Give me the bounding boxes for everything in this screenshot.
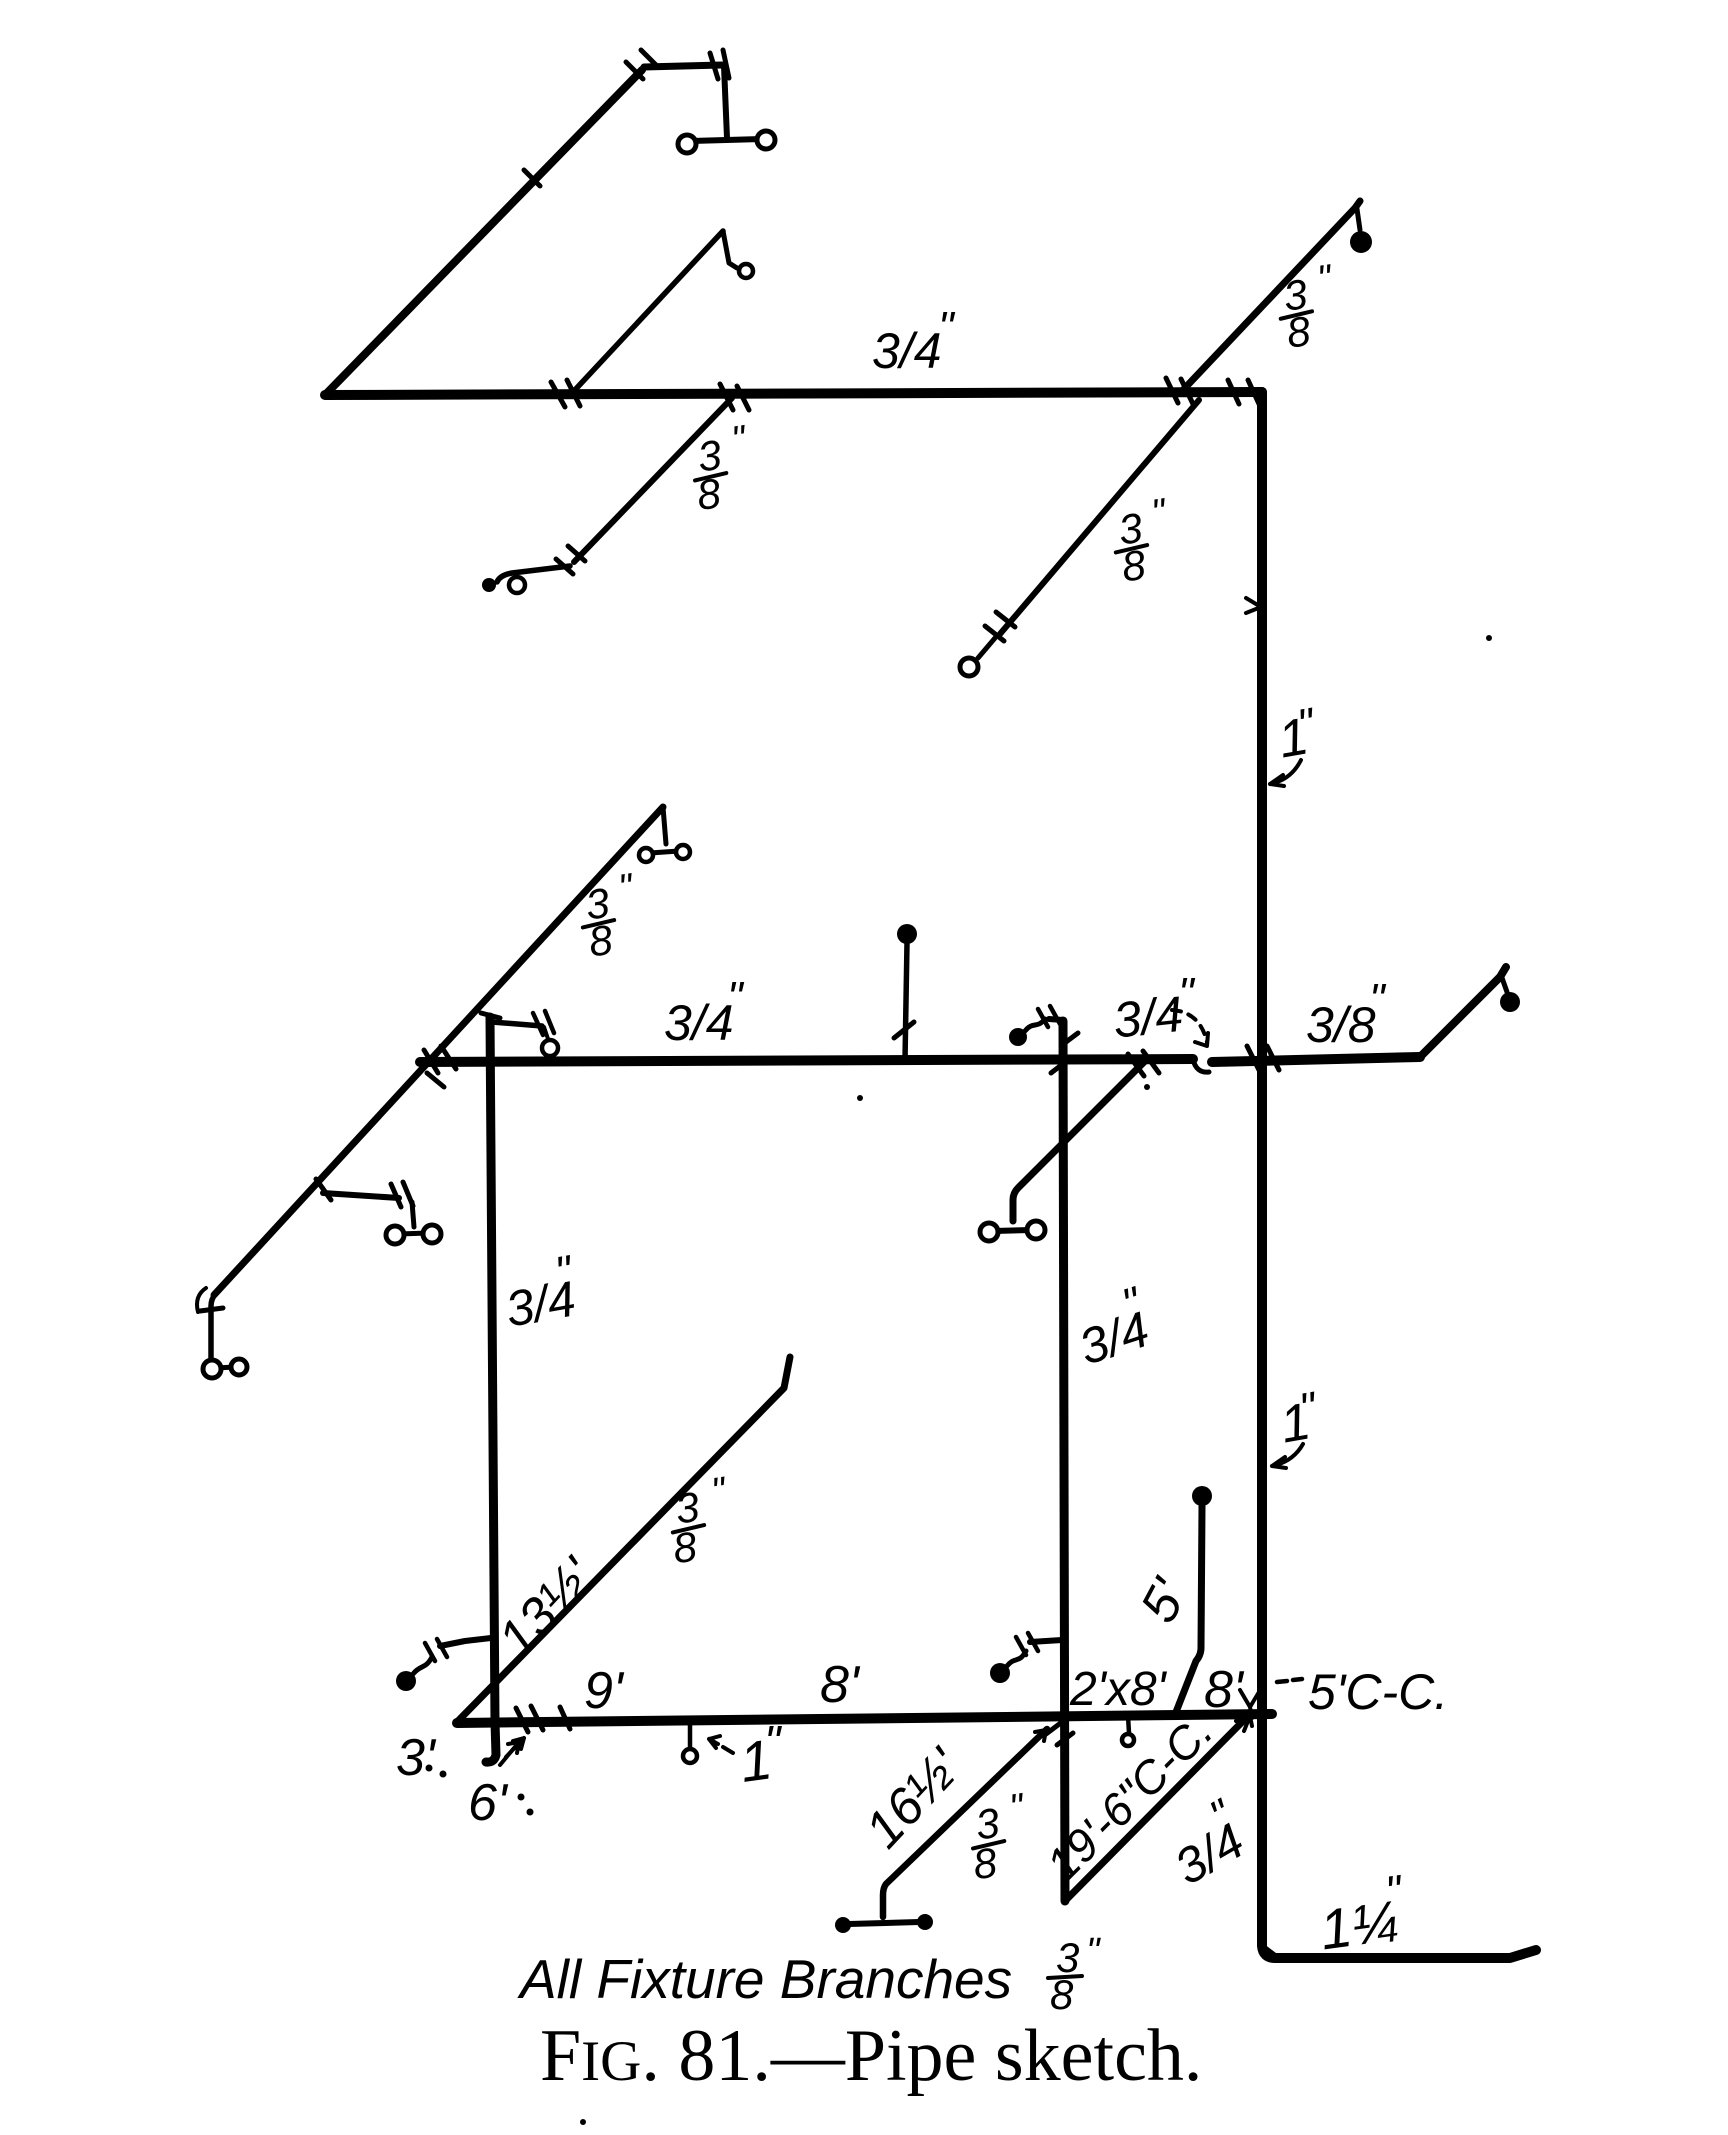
pipe: long mid-left 3/8-inch diagonal: [214, 807, 663, 1295]
svg-text:": ": [729, 418, 750, 462]
pipe: top-left branch drop: [724, 66, 727, 138]
fitting ticks at riser crossing of middle header: [1247, 1046, 1279, 1070]
svg-text:3/8: 3/8: [1306, 997, 1376, 1053]
pipe: middle 3/4-inch header (left of break): [420, 1059, 1193, 1062]
label 3/8-inch on top-right branch: [1277, 257, 1342, 356]
pipe: run left from its elbow: [497, 566, 570, 582]
svg-text:": ": [727, 973, 745, 1022]
svg-text:": ": [938, 303, 956, 352]
label 5 ft rotated: [1130, 1569, 1200, 1632]
label 9 ft: [584, 1662, 625, 1720]
label 3/4-inch on middle header: [664, 973, 745, 1051]
note: all fixture branches 3/8-inch: [517, 1931, 1101, 2018]
pipe: top 3/4-inch header: [325, 392, 1262, 395]
fixture: solid hub with squiggle at right vertical, bottom header level: [990, 1663, 1010, 1683]
caption: figure title: [540, 2015, 1202, 2097]
fixture: solid hub with squiggle at left vertical, bottom header level: [396, 1671, 416, 1691]
pipe: squiggle connection to right vertical top: [1025, 1019, 1045, 1031]
pipe: short end toward hub: [978, 638, 995, 658]
fixture: twin hubs under bar: [399, 1233, 428, 1234]
fixture: twin hubs at top of mid-left diagonal: [650, 851, 679, 853]
svg-text:All Fixture Branches: All Fixture Branches: [517, 1948, 1012, 2010]
stray ink specks: [1486, 635, 1492, 641]
pipe: 19ft-6in diagonal from right vertical bottom: [1065, 1716, 1248, 1901]
label 3 ft with leader dots: [396, 1729, 437, 1787]
pipe: branch bar off mid-left diagonal: [323, 1193, 399, 1198]
pipe: second top branch hook: [723, 231, 737, 268]
svg-text:": ": [1149, 491, 1170, 535]
pipe: stub down from bar: [412, 1202, 414, 1227]
fixture hub (solid) at right vertical top: [1009, 1028, 1027, 1046]
pipe: 3/8-inch branch below top header (left): [574, 398, 732, 562]
fixture hub (solid) at header NE end: [1500, 992, 1520, 1012]
label 13-1/2 ft rotated: [487, 1546, 607, 1668]
fitting tee at vertical top: [481, 1013, 500, 1018]
fitting ticks on that branch: [985, 612, 1015, 641]
pipe: second top branch diagonal: [573, 231, 723, 392]
label 3/4-inch on 19ft-6in diagonal: [1153, 1789, 1257, 1895]
label 3/8-inch right of riser on middle header: [1306, 975, 1387, 1053]
label 2ft x 8ft: [1069, 1663, 1168, 1716]
label 3/4-inch on top header: [872, 303, 956, 379]
svg-text:3/4: 3/4: [664, 995, 734, 1051]
label 1-1/4 inch on bottom run: [1313, 1866, 1412, 1961]
fixture hub below short run: [542, 1040, 558, 1056]
svg-text:3/4: 3/4: [1072, 1301, 1155, 1376]
dimension Y arrow at riser bottom junction: [1240, 1690, 1259, 1718]
pipe: 5 ft stub with solid hub: [1192, 1486, 1212, 1506]
svg-text:9': 9': [584, 1662, 625, 1720]
svg-text:": ": [1007, 1786, 1028, 1830]
pipe: stub with small hub under bottom header right: [1128, 1716, 1129, 1733]
pipe: stub with hub under bottom header: [688, 1721, 693, 1749]
svg-text:": ": [1315, 257, 1336, 301]
fitting tick at riser bottom elbow: [1266, 1948, 1282, 1960]
svg-text:": ": [1369, 975, 1387, 1024]
fitting ticks at right vertical crossing of middle header: [1051, 1033, 1078, 1073]
pipe: middle header (right of break): [1212, 1057, 1420, 1062]
label 3/4-inch on left vertical: [497, 1246, 583, 1337]
pipe: 16-1/2 ft 3/8-inch diagonal: [883, 1729, 1047, 1917]
fixture: top-left lavatory (bar with two hubs): [691, 139, 762, 141]
pipe: bottom header: [457, 1714, 1272, 1723]
svg-text:FIG. 81.—Pipe sketch.: FIG. 81.—Pipe sketch.: [540, 2015, 1202, 2097]
fitting tick on top-left big diagonal: [524, 170, 540, 186]
pipe: main 1-inch riser with bottom 1-1/4 inch elbow run: [1262, 392, 1536, 1958]
label 3/8-inch on below-header branch: [1112, 491, 1176, 590]
label 1-inch with dashed leader under bottom header: [736, 1716, 783, 1794]
label 1-inch lower with arrow: [1276, 1383, 1322, 1455]
label 3/8-inch on mid-left diagonal: [579, 866, 643, 965]
fitting ticks on top header: [551, 378, 1259, 410]
pipe: top-right 3/8-inch branch diagonal: [1184, 201, 1360, 389]
pipe: stub with solid hub above middle header: [905, 943, 907, 1060]
pipe: drop at top of mid-left diagonal: [663, 807, 666, 844]
pipe break hook: [1193, 1059, 1209, 1072]
svg-text:16½': 16½': [854, 1737, 974, 1859]
fixture hub on that branch: [960, 658, 978, 676]
fitting ticks at its top junction: [1128, 1051, 1159, 1076]
svg-text:3': 3': [396, 1729, 437, 1787]
svg-text:2'x8': 2'x8': [1069, 1663, 1168, 1716]
fixture: twin hubs at bottom of drop: [216, 1367, 235, 1368]
label 8 ft mid bottom header: [820, 1656, 861, 1714]
dimension arrows at its top: [1236, 1714, 1252, 1731]
pipe: stub to hub on top-right branch: [1357, 209, 1360, 230]
fixture hubs at its end: [482, 578, 496, 592]
label 19ft-6in C-C rotated: [1036, 1704, 1222, 1890]
fixture: bar with solid hubs at its bottom: [849, 1922, 919, 1924]
fixture hub (solid) on top-right branch: [1350, 231, 1372, 253]
label 3/4-inch with dashed arrow at pipe break: [1111, 969, 1196, 1049]
fitting ticks at right end of top-left run: [710, 50, 729, 79]
svg-text:3/4: 3/4: [1165, 1812, 1253, 1895]
pipe: top-left branch horizontal run: [644, 65, 722, 67]
fitting ticks at bar right end: [316, 1179, 413, 1207]
label 3/4-inch on right vertical: [1065, 1277, 1158, 1375]
svg-text:": ": [1086, 1931, 1101, 1973]
fitting ticks at right vertical crossing bottom header: [1046, 1722, 1073, 1745]
fitting tick on that stub: [894, 1022, 914, 1038]
pipe: left 3/4-inch vertical: [486, 1017, 496, 1762]
label 3/8-inch on 13-1/2 diagonal: [663, 1470, 737, 1573]
pipe: middle header northeast diagonal: [1420, 967, 1506, 1057]
pipe: stub to hub: [544, 1027, 548, 1039]
svg-text:6': 6': [468, 1774, 509, 1832]
pipe: 3/4-inch diagonal branch from middle header down-left: [1013, 1060, 1146, 1221]
pipe: stub to hub at header NE end: [1501, 975, 1507, 992]
fitting ticks on that branch: [556, 546, 585, 574]
pipe: short run right from vertical top: [492, 1022, 542, 1026]
svg-text:": ": [764, 1716, 783, 1768]
pipe: top-left riser diagonal: [325, 70, 642, 395]
label 1-inch upper with arrow: [1274, 699, 1320, 770]
dimension arrow at 16-1/2 diagonal top: [1032, 1730, 1046, 1745]
label 6 ft with leader dots: [468, 1774, 509, 1832]
fitting ticks at top of top-left diagonal: [626, 50, 658, 79]
pipe: 13-1/2 ft 3/8-inch diagonal: [457, 1357, 790, 1722]
fitting ticks at its right end: [533, 1011, 554, 1035]
svg-text:13½': 13½': [487, 1546, 607, 1668]
fitting ticks at middle header left end: [424, 1046, 456, 1087]
dimension arrow under bottom header left: [506, 1738, 524, 1757]
svg-text:5'C-C.: 5'C-C.: [1308, 1664, 1448, 1720]
fixture: twin hubs at bottom of that branch: [994, 1230, 1031, 1231]
label 5 ft C-C with dashed leader: [1277, 1679, 1302, 1682]
label 16-1/2 ft rotated: [854, 1737, 974, 1859]
svg-text:3/4: 3/4: [872, 323, 942, 379]
label 3/8-inch on 16-1/2 diagonal: [963, 1786, 1035, 1888]
svg-text:5': 5': [1130, 1569, 1200, 1632]
fixture hub on second top branch: [739, 264, 753, 278]
pipe: elbow and drop at bottom of mid-left diagonal: [211, 1293, 216, 1360]
svg-text:": ": [709, 1470, 730, 1514]
label 8 ft right: [1204, 1661, 1245, 1719]
svg-text:8': 8': [820, 1656, 861, 1714]
fitting union loop at elbow: [197, 1288, 206, 1312]
fitting tick at riser upper: [1246, 598, 1261, 613]
fitting ticks on bottom header right of left vertical: [516, 1706, 570, 1732]
pipe: 3/8-inch branch below header to fixture: [1000, 400, 1199, 634]
pipe: right 3/4-inch vertical: [1063, 1021, 1065, 1901]
svg-text:3/4: 3/4: [1111, 986, 1186, 1049]
label 3/8-inch on that branch: [687, 418, 757, 519]
svg-text:": ": [616, 866, 637, 910]
